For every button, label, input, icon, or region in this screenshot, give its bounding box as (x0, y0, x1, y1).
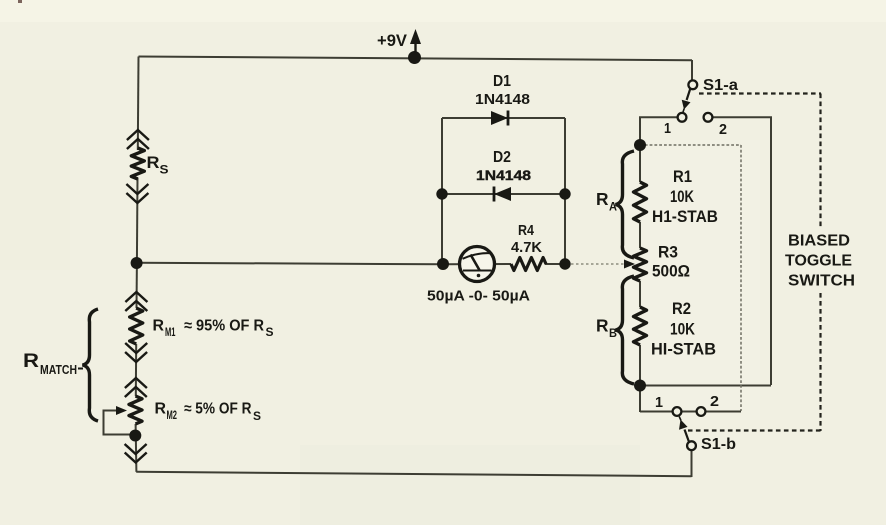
label R2 value (670, 321, 695, 339)
switch S1-a common circle (688, 80, 697, 89)
switch S1-b contact 1 circle (673, 407, 682, 416)
label RB (596, 316, 617, 341)
switch S1-a contact 1 circle (678, 113, 687, 122)
svg-text:TOGGLE: TOGGLE (785, 253, 852, 270)
label R2 (672, 300, 691, 318)
svg-text:500Ω: 500Ω (652, 263, 690, 281)
wire node RB-bottom to right riser (640, 385, 771, 387)
wire S1-b stem (691, 450, 693, 477)
node R4 right junction dot (559, 258, 570, 269)
label R1 (673, 168, 692, 186)
node meter left junction dot (437, 258, 449, 270)
node +9V junction dot (408, 51, 421, 64)
meter M1 50uA (460, 247, 495, 282)
svg-text:2: 2 (719, 122, 727, 138)
svg-text:S1-b: S1-b (701, 436, 736, 453)
svg-text:≈ 5% OF R: ≈ 5% OF R (184, 401, 252, 418)
switch S1-b contact 2 circle (697, 407, 706, 416)
brace RMATCH (83, 309, 99, 421)
switch S1-a lever (682, 89, 691, 113)
wire RM2 wiper loop (104, 411, 133, 435)
svg-text:R: R (155, 401, 167, 418)
svg-text:10K: 10K (670, 188, 694, 206)
svg-text:D2: D2 (493, 149, 511, 166)
svg-text:BIASED: BIASED (788, 233, 850, 250)
svg-text:MATCH: MATCH (40, 363, 77, 377)
wire box bottom edge (contacts row) (640, 411, 741, 413)
svg-text:1N4148: 1N4148 (476, 167, 531, 183)
svg-text:S: S (253, 411, 261, 423)
wire S1-a stem from rail (691, 60, 693, 81)
switch S1-a contact 2 circle (704, 113, 713, 122)
R3 wiper arrow (624, 260, 635, 269)
label D2 value (476, 167, 531, 183)
wire top contact2 to right riser (713, 117, 772, 385)
svg-text:4.7K: 4.7K (511, 240, 543, 256)
wire R-chain below R2 (639, 345, 641, 412)
wire top contact1 to R-chain (640, 117, 678, 140)
diode D2 (494, 187, 511, 202)
label R1 grade (652, 208, 718, 226)
resistor R1 (634, 182, 647, 222)
potentiometer RM2 (125, 378, 147, 463)
svg-text:+9V: +9V (377, 32, 407, 50)
dashed link S1-a to toggle box (699, 92, 821, 94)
svg-text:1: 1 (655, 395, 663, 411)
label RM2 value (155, 401, 262, 424)
wire middle rail node-to-R4 (137, 263, 511, 265)
wire D-branch left vertical (441, 118, 443, 264)
label contact 2 top (719, 122, 727, 138)
wire R-chain above R1 (639, 143, 641, 182)
svg-text:R: R (147, 153, 160, 172)
wire box top edge (640, 144, 741, 146)
wire D2 horizontal (442, 193, 565, 195)
wire left vertical RM1 section (136, 263, 138, 308)
svg-text:S: S (266, 327, 274, 339)
wire bottom rail (136, 472, 691, 476)
dashed link toggle box to S1-b (688, 429, 821, 431)
svg-text:R4: R4 (518, 223, 534, 239)
wire R-chain R1-R3 (639, 222, 641, 248)
node RM2 wiper junction dot (129, 430, 141, 442)
dashed toggle outline right upper (819, 94, 821, 229)
svg-text:B: B (609, 326, 617, 340)
svg-text:A: A (609, 200, 617, 214)
svg-text:R: R (23, 350, 39, 372)
label D1 value (475, 92, 530, 108)
label R3 (658, 244, 678, 262)
resistor R4 (511, 258, 546, 271)
wire D1 horizontal (442, 117, 565, 119)
svg-text:50µA -0- 50µA: 50µA -0- 50µA (427, 288, 530, 305)
wire left vertical RM1-RM2 gap (135, 344, 137, 396)
RM2 wiper arrow (116, 406, 127, 415)
potentiometer R3 (634, 248, 647, 281)
svg-text:H1-STAB: H1-STAB (652, 208, 718, 226)
label D2 (493, 149, 511, 166)
label RMATCH (23, 350, 83, 377)
label meter range (427, 288, 530, 305)
node left mid junction dot (131, 257, 143, 269)
svg-text:S1-a: S1-a (703, 77, 738, 94)
svg-text:R3: R3 (658, 244, 678, 262)
switch S1-b lever (679, 417, 689, 442)
node R2 bottom junction dot (634, 380, 646, 392)
label contact 1 bottom (655, 395, 663, 411)
dashed toggle outline right lower (819, 293, 821, 431)
label S1-b (701, 436, 736, 453)
label RA (596, 189, 617, 214)
diode D1 (491, 111, 508, 126)
svg-text:S: S (160, 163, 169, 177)
svg-text:R: R (153, 318, 165, 335)
label +9V (377, 32, 407, 50)
wire left vertical RS-to-node (136, 178, 139, 263)
label R3 value (652, 263, 690, 281)
label R1 value (670, 188, 694, 206)
label R4 value (511, 240, 543, 256)
resistor RM1 (125, 292, 147, 362)
svg-text:1N4148: 1N4148 (475, 92, 530, 108)
svg-text:HI-STAB: HI-STAB (651, 341, 716, 359)
svg-text:10K: 10K (670, 321, 695, 339)
label RM1 value (153, 318, 274, 340)
svg-text:≈ 95% OF R: ≈ 95% OF R (184, 318, 264, 335)
wire left vertical (top section) (137, 57, 140, 151)
node D2 left junction dot (436, 188, 447, 199)
svg-text:1: 1 (664, 121, 671, 137)
svg-text:R1: R1 (673, 168, 692, 186)
label biased toggle switch (785, 233, 855, 290)
svg-text:M2: M2 (167, 410, 178, 422)
svg-text:SWITCH: SWITCH (788, 273, 855, 290)
label S1-a (703, 77, 738, 94)
wire faint rail to R3 wiper (566, 263, 626, 265)
label R4 (518, 223, 534, 239)
label D1 (493, 73, 511, 90)
svg-text:R: R (596, 316, 609, 336)
node D2 right junction dot (559, 188, 570, 199)
svg-text:R: R (596, 189, 609, 209)
svg-text:R2: R2 (672, 300, 691, 318)
power +9V arrow (410, 29, 421, 57)
node R1 top junction dot (634, 139, 646, 151)
wire left vertical below RM2 (135, 424, 138, 472)
svg-text:M1: M1 (165, 327, 176, 339)
wire top +9V rail (139, 57, 693, 61)
svg-text:D1: D1 (493, 73, 511, 90)
resistor RS (126, 130, 148, 203)
wire middle rail R4-to-branch (545, 263, 566, 265)
brace RB (616, 276, 635, 384)
wire D-branch right vertical (564, 118, 566, 264)
label contact 1 top (664, 121, 671, 137)
label R2 grade (651, 341, 716, 359)
wire box right edge (740, 145, 742, 411)
wire R-chain R3-R2 (639, 281, 641, 307)
scan speck (18, 0, 22, 3)
resistor R2 (634, 307, 647, 345)
switch S1-b common circle (687, 441, 696, 450)
label contact 2 bottom (710, 394, 719, 410)
svg-text:2: 2 (710, 394, 719, 410)
label RS (147, 153, 169, 177)
brace RA (616, 151, 635, 258)
